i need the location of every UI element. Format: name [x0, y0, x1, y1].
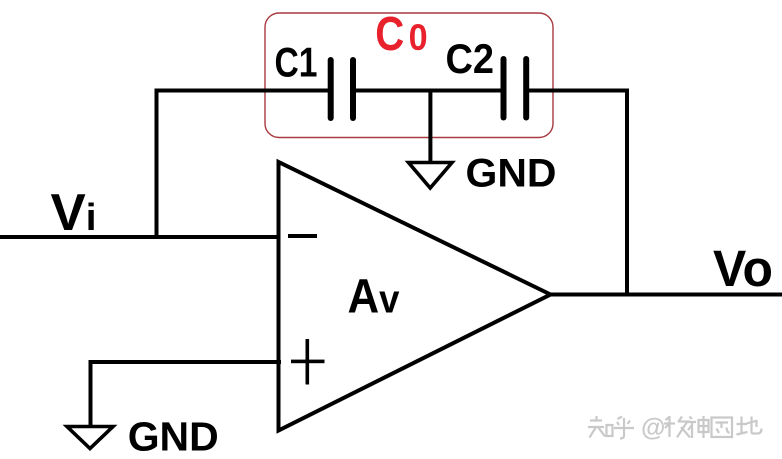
wire: top segment right (C2 to right corner) [529, 89, 629, 93]
wire: right feedback vertical [625, 89, 629, 297]
capacitor C1 [331, 60, 353, 118]
op-amp U1 triangle [279, 162, 551, 431]
svg-text:C: C [375, 8, 404, 61]
svg-text:GND: GND [466, 152, 557, 196]
wire: plus input horizontal [89, 360, 282, 364]
op-amp minus input sign [288, 234, 317, 238]
wire: input Vi horizontal [0, 235, 281, 239]
ground symbol middle (under C0 box) [409, 163, 453, 189]
wire: left feedback vertical [155, 89, 159, 240]
highlight box C0 (red rounded rect) [265, 13, 553, 138]
op-amp plus input sign [291, 360, 325, 364]
wire: top segment left (to C1) [155, 89, 329, 93]
watermark 知乎 @牧神园地 [588, 416, 762, 439]
ground symbol left [67, 427, 113, 449]
svg-text:Av: Av [348, 271, 401, 324]
svg-text:@: @ [641, 414, 665, 442]
wire: output Vo horizontal [549, 293, 782, 297]
wire: top segment middle (C1 to C2) [356, 89, 502, 93]
svg-text:C2: C2 [446, 35, 495, 82]
wire: middle ground tap vertical [428, 91, 432, 163]
svg-text:C1: C1 [275, 38, 318, 85]
svg-text:Vo: Vo [713, 240, 773, 297]
svg-text:0: 0 [409, 17, 428, 58]
svg-text:GND: GND [128, 413, 219, 459]
capacitor C2 [504, 59, 527, 118]
wire: left ground vertical [89, 360, 93, 427]
